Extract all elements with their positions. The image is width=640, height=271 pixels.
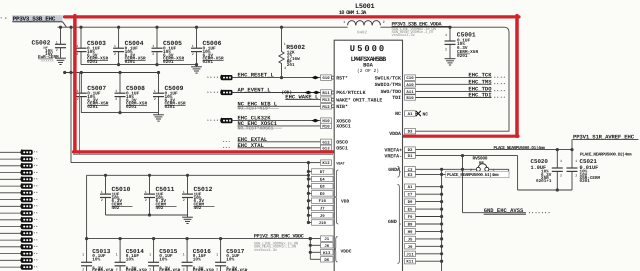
svg-text:J6: J6	[324, 244, 329, 249]
svg-text:M12: M12	[322, 105, 330, 110]
svg-text:GND: GND	[388, 219, 397, 225]
svg-text:*: *	[216, 119, 218, 124]
pin A1 NC row	[395, 111, 428, 118]
svg-text:1: 1	[101, 190, 103, 195]
node AP_EVENT_L row	[207, 87, 366, 97]
capacitor C5020	[531, 150, 563, 190]
svg-text:2: 2	[216, 267, 218, 271]
node GND bracket	[388, 185, 401, 264]
svg-text:M10: M10	[322, 124, 330, 129]
svg-text:2: 2	[145, 198, 147, 203]
svg-text:*: *	[36, 205, 38, 209]
svg-text:*: *	[503, 96, 505, 101]
capacitor C5006	[191, 26, 224, 65]
node PLACE_NEARPU5000.D2 note	[580, 152, 632, 158]
svg-text:1: 1	[116, 253, 118, 258]
svg-text:402: 402	[156, 206, 164, 211]
svg-text:*: *	[36, 185, 38, 189]
pin J10 VDD	[312, 220, 334, 226]
capacitor C5010	[100, 174, 133, 215]
pin F10 VDD	[312, 198, 334, 204]
svg-text:J9: J9	[320, 214, 325, 219]
svg-text:*: *	[207, 91, 209, 96]
ground under C5012	[182, 215, 193, 224]
svg-text:1: 1	[192, 44, 194, 49]
svg-text:*: *	[0, 16, 2, 20]
resistor R5002	[279, 26, 305, 80]
svg-text:0201: 0201	[126, 105, 137, 110]
svg-text:SWDIO/TMS: SWDIO/TMS	[375, 82, 401, 88]
node PLACE_NEARPU5000.D1 note	[494, 145, 546, 151]
svg-text:NC: NC	[395, 111, 401, 117]
wire row2 bottom rail	[81, 111, 158, 114]
svg-text:1: 1	[77, 89, 79, 94]
svg-text:G10: G10	[322, 76, 330, 81]
node PLACE_NEARPU5000.b1 note	[446, 171, 510, 178]
wire VDD pin bus	[307, 163, 312, 224]
svg-text:OMIT_TABLE: OMIT_TABLE	[353, 97, 382, 103]
svg-text:2: 2	[101, 198, 103, 203]
svg-text:D2: D2	[408, 148, 413, 153]
svg-text:*: *	[228, 146, 230, 150]
svg-text:0201: 0201	[87, 105, 98, 110]
svg-text:2: 2	[116, 267, 118, 271]
svg-text:PLACE_NEARPU5000.D2|4mm: PLACE_NEARPU5000.D2|4mm	[580, 152, 632, 158]
capacitor C5016	[182, 237, 215, 271]
svg-text:1: 1	[216, 253, 218, 258]
svg-text:*: *	[225, 140, 227, 144]
svg-text:2: 2	[152, 52, 154, 57]
svg-text:xxxxxx: xxxxxx	[41, 60, 54, 64]
svg-text:2: 2	[77, 97, 79, 102]
node NC_EHC_NIB_L row	[238, 100, 349, 111]
pin C7 GND	[405, 192, 416, 198]
svg-text:*: *	[535, 212, 537, 217]
svg-text:EHC_RESET_L: EHC_RESET_L	[238, 72, 275, 79]
node NC_EHC_XOSC1 row	[238, 120, 351, 131]
svg-text:*: *	[36, 218, 38, 222]
svg-text:*: *	[36, 164, 38, 168]
svg-text:VREFA+: VREFA+	[384, 147, 402, 153]
svg-text:*: *	[207, 119, 209, 124]
svg-text:C5001: C5001	[457, 32, 476, 39]
svg-text:SWCLK/TCK: SWCLK/TCK	[375, 75, 401, 81]
svg-text:C5002: C5002	[32, 40, 51, 47]
resistor RV5000 jumper	[470, 155, 509, 174]
inductor L5001	[339, 3, 385, 36]
pin K13	[321, 250, 334, 256]
svg-text:1: 1	[114, 44, 116, 49]
svg-text:*: *	[529, 212, 531, 217]
svg-text:*: *	[497, 96, 499, 101]
pin J11 GND	[405, 251, 416, 257]
svg-text:*: *	[500, 83, 502, 88]
svg-text:(2 OF 2): (2 OF 2)	[357, 68, 379, 74]
svg-text:B9: B9	[408, 223, 413, 228]
svg-text:0402: 0402	[357, 30, 368, 35]
svg-text:EHC_TMS: EHC_TMS	[468, 78, 492, 85]
node VDDC bracket	[334, 237, 351, 262]
svg-text:VDDA: VDDA	[389, 131, 401, 137]
svg-text:2: 2	[149, 267, 151, 271]
wire GND pin bus	[416, 169, 444, 271]
svg-text:*: *	[494, 83, 496, 88]
svg-text:K12: K12	[322, 161, 330, 166]
svg-text:0201: 0201	[580, 179, 591, 184]
svg-text:SWO/TDO: SWO/TDO	[380, 89, 401, 95]
svg-text:vss5xxx1.3v: vss5xxx1.3v	[392, 33, 416, 38]
ground under C5009	[153, 113, 164, 122]
wire block outline left edge	[79, 73, 81, 155]
capacitor C5021	[567, 150, 601, 190]
svg-text:RST*: RST*	[336, 75, 348, 81]
svg-text:*: *	[213, 119, 215, 124]
svg-text:OSC1: OSC1	[336, 146, 348, 152]
pin VBAT name	[336, 161, 345, 166]
svg-text:*: *	[542, 212, 544, 217]
pin D6	[321, 257, 334, 263]
pin H10 XOSC0	[336, 118, 351, 124]
svg-text:2: 2	[183, 267, 185, 271]
svg-text:J11: J11	[406, 252, 414, 257]
svg-text:*: *	[210, 119, 212, 124]
wire VREF caps bottom rail	[518, 188, 572, 191]
svg-text:*: *	[500, 96, 502, 101]
svg-text:OSC0: OSC0	[336, 140, 348, 146]
svg-text:E5: E5	[408, 208, 413, 213]
pin D9 GND	[405, 199, 416, 205]
svg-text:*: *	[545, 212, 547, 217]
node EHC_TDI row	[405, 92, 506, 102]
svg-text:*: *	[36, 198, 38, 202]
ground under C5001	[445, 57, 456, 66]
svg-text:K13: K13	[323, 251, 331, 256]
svg-text:0201: 0201	[203, 60, 214, 65]
svg-text:M13: M13	[322, 98, 330, 103]
node GND_EHC_AVSS label	[484, 207, 550, 217]
svg-text:C10: C10	[406, 76, 414, 81]
svg-text:PK4/RTCCLK: PK4/RTCCLK	[336, 90, 365, 96]
svg-text:XOSC1: XOSC1	[336, 124, 351, 130]
svg-text:1: 1	[154, 89, 156, 94]
pin D7 VDD	[312, 169, 334, 175]
svg-text:*: *	[216, 91, 218, 96]
node EHC_TDO row	[380, 85, 505, 95]
svg-text:2: 2	[560, 173, 562, 178]
svg-text:E8: E8	[320, 185, 325, 190]
svg-text:1: 1	[183, 190, 185, 195]
node EHC_XTAL row	[223, 142, 348, 152]
svg-text:*: *	[36, 158, 38, 162]
svg-text:*: *	[494, 96, 496, 101]
svg-text:B11: B11	[322, 91, 330, 96]
svg-text:*: *	[500, 90, 502, 95]
svg-text:J7: J7	[320, 207, 325, 212]
capacitor C5009	[153, 71, 186, 113]
svg-text:WAKE*: WAKE*	[336, 97, 351, 103]
svg-text:10%: 10%	[226, 257, 234, 262]
svg-text:H9: H9	[408, 230, 413, 235]
svg-text:*: *	[213, 76, 215, 81]
wire VDDA net from rail to pin D3	[415, 27, 509, 131]
svg-text:A11: A11	[406, 90, 414, 95]
node GNDA bracket	[398, 167, 401, 178]
svg-text:E4: E4	[320, 178, 325, 183]
node TDI name	[392, 95, 401, 101]
pin M13 WAKE	[336, 97, 382, 103]
pin D2 VREFA+ row	[384, 147, 573, 153]
svg-text:1: 1	[183, 253, 185, 258]
ground under C5006	[191, 65, 202, 74]
svg-text:E9: E9	[320, 192, 325, 197]
svg-text:*: *	[500, 76, 502, 81]
pin E5 GND	[405, 206, 416, 212]
pin D1 VREFA- row	[384, 153, 517, 190]
svg-text:2: 2	[82, 267, 84, 271]
svg-text:A1: A1	[408, 185, 413, 190]
svg-text:10%: 10%	[159, 257, 167, 262]
svg-text:10 OHM 1.3A: 10 OHM 1.3A	[339, 10, 367, 16]
left off-page tag column	[0, 149, 38, 269]
svg-text:10%: 10%	[193, 257, 201, 262]
wire VDDC bus	[309, 237, 321, 259]
svg-text:BGA: BGA	[363, 63, 373, 69]
svg-text:RV5000: RV5000	[473, 155, 488, 161]
capacitor C5013	[81, 237, 114, 271]
svg-text:1: 1	[56, 40, 58, 45]
svg-text:2: 2	[114, 52, 116, 57]
pin J6	[321, 243, 334, 249]
node EHC_WAKE_L row	[285, 94, 382, 104]
svg-text:NC: NC	[423, 111, 429, 117]
svg-text:2: 2	[183, 198, 185, 203]
node VDD bracket	[335, 170, 350, 224]
svg-text:1: 1	[145, 190, 147, 195]
svg-text:*: *	[225, 146, 227, 150]
svg-text:TDI: TDI	[392, 95, 401, 101]
svg-text:*: *	[548, 212, 550, 217]
svg-text:D3: D3	[408, 130, 413, 135]
wire VDD rail	[87, 175, 309, 238]
svg-text:*: *	[36, 239, 38, 243]
pin M10 XOSC1	[336, 124, 351, 130]
pin D3 VDDA	[389, 129, 415, 137]
svg-text:2: 2	[445, 47, 447, 52]
pin K11 GND	[405, 259, 416, 265]
svg-text:D9: D9	[408, 200, 413, 205]
pin F9 GND	[405, 214, 416, 220]
svg-text:*: *	[216, 76, 218, 81]
svg-text:GND_EHC_AVSS: GND_EHC_AVSS	[484, 207, 524, 214]
pin H9 GND	[405, 229, 416, 235]
ground under C5002	[55, 56, 66, 65]
svg-text:*: *	[36, 178, 38, 182]
svg-text:*: *	[497, 90, 499, 95]
svg-text:*: *	[36, 245, 38, 249]
svg-text:*: *	[538, 212, 540, 217]
svg-text:2: 2	[56, 48, 58, 53]
pin J9 GND	[405, 244, 416, 250]
svg-text:1: 1	[445, 33, 447, 38]
svg-text:*: *	[210, 76, 212, 81]
node EHC_RESET_L row	[207, 72, 348, 82]
svg-text:0201: 0201	[457, 54, 468, 59]
svg-text:0201+1: 0201+1	[536, 179, 552, 184]
capacitor C5003	[76, 26, 109, 65]
capacitor C5015	[148, 237, 181, 271]
svg-text:*: *	[207, 76, 209, 81]
svg-text:GNDA: GNDA	[388, 167, 400, 173]
svg-text:VDDC: VDDC	[341, 249, 352, 255]
svg-text:D1: D1	[408, 154, 413, 159]
svg-text:A10: A10	[406, 83, 414, 88]
svg-text:J1: J1	[324, 237, 329, 242]
op-amp U5000 MCU body	[334, 40, 402, 271]
pin M12 NIB	[336, 104, 348, 110]
svg-text:J9: J9	[408, 245, 413, 250]
svg-text:PLACE_NEARPU5000.D1|4mm: PLACE_NEARPU5000.D1|4mm	[494, 145, 546, 151]
svg-text:E3: E3	[408, 173, 413, 178]
svg-text:K11: K11	[406, 260, 414, 265]
capacitor C5017	[215, 237, 248, 271]
node EHC_EXTAL row	[223, 136, 348, 146]
capacitor C5005	[152, 26, 185, 65]
svg-text:*: *	[497, 76, 499, 81]
svg-text:G12: G12	[322, 140, 330, 145]
capacitor C5001	[445, 26, 479, 59]
capacitor C5004	[113, 26, 146, 65]
capacitor C5007	[76, 71, 109, 113]
capacitor C5008	[115, 71, 148, 113]
svg-text:*: *	[503, 83, 505, 88]
svg-text:*: *	[36, 225, 38, 229]
svg-text:D6: D6	[324, 258, 329, 263]
node PP3V3 top-left net label	[0, 15, 66, 27]
svg-text:1: 1	[343, 20, 345, 25]
wire row1 bottom rail	[81, 63, 198, 66]
node EHC_CLK32K row	[207, 115, 351, 125]
svg-text:VREFA-: VREFA-	[384, 153, 402, 159]
pin K12 VBAT	[321, 160, 348, 167]
svg-text:2: 2	[383, 20, 385, 25]
svg-text:10%: 10%	[92, 257, 100, 262]
svg-text:*: *	[36, 259, 38, 263]
svg-text:2: 2	[192, 52, 194, 57]
pin G12 OSC0	[336, 140, 348, 146]
pin B11 PK4	[336, 90, 365, 96]
pin J7 VDD	[312, 205, 334, 211]
svg-text:F10: F10	[319, 199, 327, 204]
svg-text:EHC_TDI: EHC_TDI	[468, 92, 491, 99]
pin E4 VDD	[312, 176, 334, 182]
svg-text:PLACE_NEARPU5000.b1|4mm: PLACE_NEARPU5000.b1|4mm	[447, 172, 499, 178]
svg-text:*: *	[36, 191, 38, 195]
svg-text:*: *	[503, 90, 505, 95]
svg-text:«: «	[5, 17, 7, 21]
svg-text:*: *	[213, 91, 215, 96]
svg-text:201: 201	[287, 63, 295, 68]
capacitor C5014	[115, 237, 148, 271]
svg-text:*: *	[494, 76, 496, 81]
wire PP3V3 feed to lower rows and VBAT	[69, 26, 320, 165]
svg-text:2: 2	[575, 173, 577, 178]
svg-text:1: 1	[575, 159, 577, 164]
svg-text:J5: J5	[408, 237, 413, 242]
node PP3V3_S3B_EHC_VDDA label	[392, 22, 451, 38]
pin E3 GNDA row	[405, 172, 509, 178]
svg-text:D7: D7	[320, 170, 325, 175]
svg-text:F9: F9	[408, 215, 413, 220]
svg-text:PP1V2_S3R_EHC_VDDC: PP1V2_S3R_EHC_VDDC	[254, 234, 304, 240]
wire red highlight annotation	[65, 16, 520, 155]
capacitor C5002	[32, 26, 67, 64]
wire C5010 bottom rail	[106, 213, 188, 216]
wire PP1V2 VDDC rail	[87, 237, 321, 240]
svg-text:VBAT: VBAT	[336, 161, 345, 166]
svg-text:*: *	[497, 83, 499, 88]
node VDDC bracket redraw	[334, 237, 351, 262]
svg-text:*: *	[36, 232, 38, 236]
svg-text:*: *	[36, 171, 38, 175]
pin G10 RST	[336, 75, 348, 81]
svg-text:VDD: VDD	[341, 199, 350, 205]
pin B9 GND	[405, 221, 416, 227]
svg-text:*: *	[36, 151, 38, 155]
capacitor C5012	[182, 174, 215, 215]
svg-text:2: 2	[115, 97, 117, 102]
svg-text:B10: B10	[406, 96, 414, 101]
svg-text:0201: 0201	[165, 105, 176, 110]
pin G13 OSC1	[336, 146, 348, 152]
svg-text:1: 1	[560, 159, 562, 164]
node VDD bracket redraw	[335, 170, 350, 224]
svg-text:NIB*: NIB*	[336, 104, 348, 110]
svg-text:*: *	[36, 212, 38, 216]
svg-text:*: *	[36, 252, 38, 256]
svg-text:402: 402	[194, 206, 202, 211]
node PP1V2_S3R_EHC_VDDC label	[254, 234, 304, 253]
svg-text:*: *	[503, 76, 505, 81]
svg-text:1: 1	[149, 253, 151, 258]
pin E9 VDD	[312, 191, 334, 197]
svg-text:AP_EVENT_L: AP_EVENT_L	[238, 87, 272, 94]
pin C3 GNDA row	[388, 167, 476, 173]
svg-text:2: 2	[154, 97, 156, 102]
svg-text:U5000: U5000	[350, 44, 386, 54]
svg-text:*: *	[532, 212, 534, 217]
svg-text:10%: 10%	[126, 257, 134, 262]
svg-text:XOSC0: XOSC0	[336, 118, 351, 124]
node EHC_TMS row	[375, 78, 506, 88]
node PP3V1_S1R_AVREF_EHC label	[572, 133, 639, 149]
pin E8 VDD	[312, 184, 334, 190]
svg-text:*: *	[36, 266, 38, 270]
svg-text:*: *	[228, 140, 230, 144]
svg-text:1: 1	[82, 253, 84, 258]
svg-text:*: *	[494, 90, 496, 95]
pin J9 VDD	[312, 213, 334, 219]
wire PP3V3 power rail	[58, 26, 451, 28]
svg-text:C7: C7	[408, 193, 413, 198]
pin J5 GND	[405, 236, 416, 242]
svg-text:*: *	[210, 91, 212, 96]
svg-text:A1: A1	[408, 112, 413, 117]
capacitor C5011	[144, 174, 177, 215]
wire GND_EHC_AVSS	[463, 156, 527, 213]
pin A1 GND	[405, 184, 416, 190]
pin J1 VDDC	[321, 236, 334, 242]
svg-text:J10: J10	[319, 221, 327, 226]
